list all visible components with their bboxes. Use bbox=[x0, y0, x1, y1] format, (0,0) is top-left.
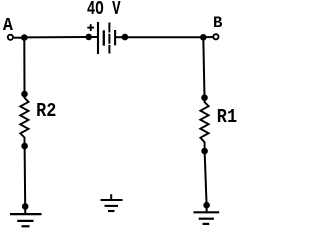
svg-text:R1: R1 bbox=[217, 106, 237, 128]
battery plate long 2 bbox=[108, 23, 110, 54]
junction dot R2 top bbox=[21, 91, 28, 98]
wire stub into right ground bbox=[206, 205, 208, 212]
wire R2 to left ground bbox=[24, 146, 27, 206]
resistor R1 bbox=[200, 98, 208, 151]
wire node A to battery + bbox=[24, 36, 88, 38]
wire terminal A to node A bbox=[14, 37, 24, 39]
wire R1 to right ground bbox=[205, 151, 207, 205]
junction dot R2 bottom bbox=[21, 143, 28, 150]
terminal A bbox=[8, 35, 13, 40]
junction dot right ground bbox=[203, 202, 210, 209]
wire stub into middle ground bbox=[110, 194, 112, 200]
battery terminal dot left bbox=[85, 34, 92, 41]
junction dot node B bbox=[200, 34, 207, 41]
junction dot R1 bottom bbox=[201, 148, 208, 155]
ground left bbox=[10, 214, 42, 226]
+ polarity label bbox=[87, 24, 94, 31]
junction dot R1 top bbox=[201, 94, 208, 101]
battery plate short 1 bbox=[103, 30, 105, 45]
battery plate long 1 bbox=[97, 22, 99, 54]
wire battery to node B bbox=[125, 36, 203, 38]
svg-text:R2: R2 bbox=[36, 100, 56, 122]
battery plate short 2 bbox=[114, 30, 116, 45]
svg-text:A: A bbox=[3, 16, 13, 36]
battery terminal dot right bbox=[122, 34, 129, 41]
ground middle (source reference) bbox=[101, 200, 123, 211]
svg-text:4O V: 4O V bbox=[87, 0, 121, 20]
terminal B bbox=[213, 34, 218, 39]
wire stub into left ground bbox=[24, 206, 26, 214]
junction dot left ground bbox=[22, 203, 29, 210]
wire node A down to R2 bbox=[23, 38, 25, 94]
ground right bbox=[193, 212, 219, 224]
wire battery right stub bbox=[115, 36, 125, 38]
svg-text:B: B bbox=[213, 14, 223, 32]
wire node B down to R1 bbox=[203, 37, 204, 97]
wire battery left stub bbox=[89, 36, 98, 38]
junction dot node A bbox=[21, 34, 28, 41]
wire node B to terminal B bbox=[203, 36, 212, 38]
resistor R2 bbox=[20, 94, 28, 146]
